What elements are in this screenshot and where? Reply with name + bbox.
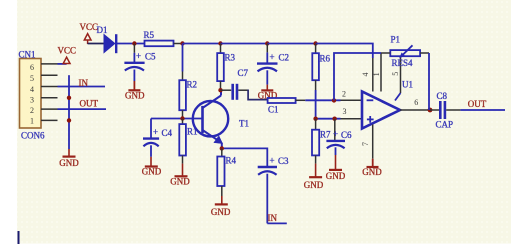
svg-text:C6: C6 bbox=[341, 130, 352, 140]
junction pin2/P1 bbox=[332, 98, 336, 102]
svg-text:C3: C3 bbox=[278, 156, 289, 166]
capacitor C7 bbox=[233, 68, 249, 100]
wire VCC to D1 bbox=[88, 43, 104, 45]
resistor R3 bbox=[217, 44, 235, 91]
resistor R7 bbox=[312, 119, 331, 164]
junction emitter/R4/C3 bbox=[220, 146, 224, 150]
wire P1 right to output bbox=[428, 53, 430, 110]
wire IN (node IN) bbox=[58, 78, 106, 88]
svg-text:R7: R7 bbox=[320, 130, 331, 140]
transistor T1 bbox=[193, 90, 249, 148]
junction C6 bbox=[332, 117, 336, 121]
svg-text:C1: C1 bbox=[268, 105, 279, 115]
svg-text:T1: T1 bbox=[239, 119, 249, 129]
svg-text:R6: R6 bbox=[320, 54, 331, 64]
wire pin6 to VCC bbox=[58, 63, 67, 65]
pin 2 of U1 bbox=[341, 90, 363, 101]
svg-text:D1: D1 bbox=[97, 25, 108, 35]
wire pin3 net bbox=[316, 118, 341, 120]
capacitor C6 bbox=[326, 119, 352, 155]
svg-text:4: 4 bbox=[30, 85, 34, 94]
svg-text:C4: C4 bbox=[162, 128, 173, 138]
resistor R5 bbox=[144, 30, 174, 46]
capacitor C4 bbox=[143, 119, 173, 157]
resistor R6 bbox=[312, 44, 330, 119]
pin 3 lead bbox=[41, 97, 58, 99]
wire ground bus from pin5 down bbox=[68, 75, 70, 149]
svg-text:5: 5 bbox=[391, 72, 400, 76]
ground (C2) bbox=[258, 85, 278, 101]
svg-text:GND: GND bbox=[362, 167, 382, 177]
wire OUT (output node) bbox=[460, 99, 505, 110]
ground (U1 pin7) bbox=[362, 159, 382, 178]
svg-text:+: + bbox=[270, 52, 275, 62]
svg-text:GND: GND bbox=[304, 180, 324, 190]
svg-text:3: 3 bbox=[30, 95, 34, 104]
svg-text:6: 6 bbox=[414, 98, 418, 107]
svg-text:CN1: CN1 bbox=[19, 49, 36, 59]
pin 4 lead bbox=[41, 86, 58, 88]
capacitor C8 bbox=[430, 91, 460, 130]
wire rail R2 to R3 bbox=[183, 43, 221, 45]
junction C2 top bbox=[265, 41, 269, 45]
wire D1 to R5 bbox=[117, 43, 145, 45]
junction C5 top bbox=[132, 41, 136, 45]
wire rail C2 to R6 bbox=[267, 43, 315, 45]
resistor R2 bbox=[179, 44, 197, 119]
svg-text:R4: R4 bbox=[226, 156, 237, 166]
svg-text:OUT: OUT bbox=[80, 99, 99, 109]
potentiometer P1 (RES4) bbox=[381, 34, 429, 68]
svg-text:OUT: OUT bbox=[468, 99, 487, 109]
junction R2 top bbox=[180, 41, 184, 45]
pin 1 of U1 bbox=[372, 53, 381, 92]
resistor R4 bbox=[217, 148, 236, 196]
power VCC (at connector) bbox=[58, 46, 77, 64]
svg-text:R2: R2 bbox=[187, 80, 198, 90]
junction R6 top bbox=[313, 41, 317, 45]
ground (C4) bbox=[142, 157, 162, 177]
svg-text:+: + bbox=[136, 51, 141, 61]
pin 4 of U1 bbox=[361, 58, 373, 92]
svg-text:IN: IN bbox=[79, 78, 89, 88]
svg-text:GND: GND bbox=[170, 177, 190, 187]
svg-text:+: + bbox=[270, 156, 275, 166]
wire emitter to C3 bbox=[222, 148, 267, 166]
capacitor C5 bbox=[124, 44, 156, 82]
svg-text:R5: R5 bbox=[144, 30, 155, 40]
connector CN1 (CON6) bbox=[19, 49, 46, 140]
resistor R1 bbox=[179, 119, 197, 164]
pin 6 lead bbox=[41, 63, 58, 65]
svg-text:C7: C7 bbox=[238, 68, 249, 78]
pin 7 of U1 bbox=[361, 125, 373, 159]
junction collector/R3/C7 bbox=[218, 88, 222, 92]
wire OUT (node OUT) bbox=[58, 99, 107, 110]
wire rail R6 to opamp pin4 bbox=[316, 44, 373, 59]
ground (R4) bbox=[211, 196, 231, 217]
svg-text:3: 3 bbox=[343, 107, 347, 116]
pin 6 of U1 (output) bbox=[400, 98, 430, 110]
ground (C5) bbox=[125, 81, 145, 101]
svg-text:VCC: VCC bbox=[58, 46, 77, 56]
svg-text:CAP: CAP bbox=[436, 120, 454, 130]
svg-text:4: 4 bbox=[361, 73, 370, 77]
svg-text:GND: GND bbox=[211, 207, 231, 217]
wire R3 to C7 bbox=[221, 89, 232, 91]
svg-text:+: + bbox=[333, 129, 338, 139]
pin 3 of U1 bbox=[341, 107, 363, 119]
capacitor C2 bbox=[257, 44, 289, 85]
junction output/P1/C8 bbox=[428, 108, 433, 113]
svg-text:VCC: VCC bbox=[80, 22, 99, 32]
svg-text:GND: GND bbox=[59, 158, 79, 168]
ground (C6) bbox=[326, 155, 346, 181]
wire P1 left to pin2 net bbox=[334, 53, 381, 100]
junction pin3-gnd bbox=[67, 96, 71, 100]
pin 5 of U1 bbox=[391, 57, 400, 101]
ground (below CN1) bbox=[59, 149, 79, 168]
capacitor C1 (series element) bbox=[268, 98, 306, 115]
pin 2 lead bbox=[41, 108, 58, 110]
svg-text:1: 1 bbox=[372, 72, 381, 76]
svg-text:2: 2 bbox=[30, 106, 34, 115]
wire base net bbox=[151, 118, 203, 120]
svg-text:C2: C2 bbox=[279, 53, 290, 63]
svg-text:GND: GND bbox=[326, 171, 346, 181]
wire pin2 net bbox=[305, 99, 340, 101]
svg-text:GND: GND bbox=[125, 91, 145, 101]
svg-text:U1: U1 bbox=[402, 79, 413, 89]
svg-text:P1: P1 bbox=[391, 34, 401, 44]
svg-text:IN: IN bbox=[268, 213, 278, 223]
junction R3 top bbox=[218, 41, 222, 45]
wire C7 to C1 bbox=[238, 89, 248, 91]
svg-text:6: 6 bbox=[30, 63, 34, 72]
capacitor C3 bbox=[258, 156, 289, 224]
junction base bbox=[180, 116, 184, 120]
junction R6/R7 bbox=[313, 117, 317, 121]
svg-text:1: 1 bbox=[30, 116, 34, 125]
ground (R1) bbox=[170, 164, 190, 187]
svg-text:7: 7 bbox=[361, 142, 370, 146]
wire rail R3 to C2 bbox=[221, 43, 268, 45]
ground (R7) bbox=[304, 164, 324, 190]
svg-text:RES4: RES4 bbox=[392, 58, 414, 68]
svg-text:C8: C8 bbox=[437, 91, 448, 101]
op-amp U1 bbox=[362, 79, 413, 128]
sheet border corner mark bbox=[18, 231, 20, 244]
svg-text:5: 5 bbox=[30, 74, 34, 83]
svg-text:+: + bbox=[153, 127, 158, 137]
svg-text:GND: GND bbox=[142, 166, 162, 176]
svg-text:2: 2 bbox=[342, 90, 346, 99]
svg-text:C5: C5 bbox=[145, 52, 156, 62]
diode D1 bbox=[97, 25, 117, 53]
junction pin1-gnd bbox=[67, 118, 71, 122]
wire R5 to R2 junction bbox=[174, 43, 183, 45]
pin 1 lead bbox=[41, 119, 58, 121]
power VCC (top left) bbox=[80, 22, 99, 44]
wire C3 to IN stub bbox=[267, 213, 287, 223]
svg-text:R3: R3 bbox=[225, 53, 236, 63]
svg-text:CON6: CON6 bbox=[21, 131, 45, 141]
pin 5 lead bbox=[41, 74, 58, 76]
